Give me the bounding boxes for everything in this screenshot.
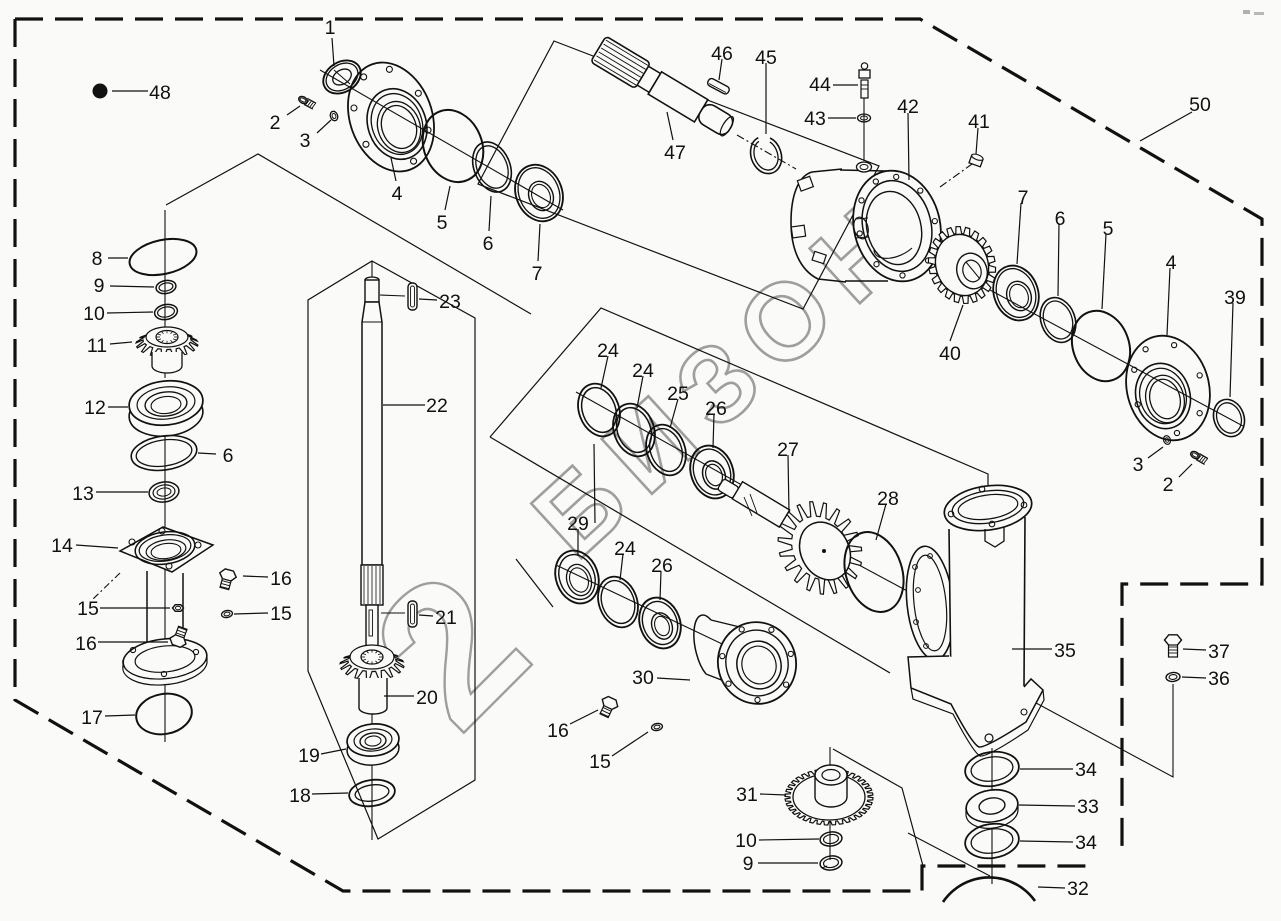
o-ring 5 [412, 101, 493, 191]
svg-text:20: 20 [416, 687, 438, 709]
axis 14 to screws dashdot [92, 573, 120, 600]
label 19 [298, 745, 346, 767]
o-ring 17 [133, 689, 195, 738]
label 6 [1055, 208, 1066, 296]
svg-text:19: 19 [298, 745, 320, 767]
label 32 [1038, 878, 1089, 900]
axis lower rings row [556, 565, 758, 661]
label 5 [1102, 218, 1114, 309]
label 28 [876, 488, 899, 540]
svg-text:8: 8 [92, 248, 103, 270]
svg-text:24: 24 [614, 538, 636, 560]
washer 3 [329, 110, 339, 121]
label 13 [72, 483, 148, 505]
screw 16 left [168, 625, 191, 649]
label 6 [483, 196, 494, 255]
ring 9 [155, 279, 177, 295]
label 48 [112, 82, 171, 104]
label 7 [532, 224, 543, 285]
label 15 [589, 732, 648, 773]
svg-text:3: 3 [1133, 454, 1144, 476]
panel bottom edge upper rings row [490, 437, 890, 673]
label 16 [547, 710, 598, 742]
o-ring 28 [835, 524, 914, 619]
washer 15 mid [221, 610, 233, 619]
svg-text:16: 16 [75, 633, 97, 655]
label 4 [391, 158, 403, 205]
bearing 12 [127, 377, 205, 439]
label 34 [1020, 832, 1097, 854]
snap ring 24c [591, 571, 644, 633]
label 39 [1224, 287, 1246, 397]
screw 16 mid [216, 568, 237, 591]
label 40 [939, 305, 963, 365]
label 26 [651, 555, 673, 600]
label 31 [736, 784, 786, 806]
flange 4 right [1115, 326, 1222, 450]
svg-text:32: 32 [1067, 878, 1089, 900]
hub 30 [694, 613, 805, 712]
key 46 [706, 77, 730, 95]
svg-text:9: 9 [94, 275, 105, 297]
label 21 [419, 607, 457, 629]
label 6 [198, 445, 233, 467]
svg-text:11: 11 [87, 335, 107, 357]
screw 2 right [1189, 450, 1208, 465]
axis gear 20 column [371, 712, 373, 840]
axis shaft 22 top [371, 261, 373, 280]
arc 32 [943, 877, 1035, 902]
bolt 37 [1165, 635, 1182, 657]
key 23 [408, 283, 417, 310]
flange plate 14 [120, 527, 213, 572]
svg-text:44: 44 [809, 74, 831, 96]
flange 4 right bolt holes [1132, 343, 1203, 436]
svg-text:39: 39 [1224, 287, 1246, 309]
svg-text:34: 34 [1075, 759, 1097, 781]
svg-text:28: 28 [877, 488, 899, 510]
svg-text:26: 26 [705, 398, 727, 420]
spur gear 31 [785, 765, 873, 825]
washer 15 bottom [651, 723, 663, 732]
label 12 [84, 397, 128, 419]
o-ring 8 [126, 233, 200, 280]
screw 2 [297, 95, 316, 109]
pinion gear 27 [717, 478, 877, 609]
label 41 [968, 111, 990, 154]
ring 25 [639, 419, 692, 481]
housing tube 35 [901, 480, 1044, 756]
washer 43 [858, 114, 871, 122]
o-ring 18 [347, 777, 396, 809]
label 22 [383, 395, 448, 417]
housing 42 [791, 161, 952, 290]
svg-text:47: 47 [664, 142, 686, 164]
label 16 [75, 633, 168, 655]
label 24 [614, 538, 636, 580]
svg-text:16: 16 [547, 720, 569, 742]
bearing 26b [632, 592, 687, 655]
bevel gear 20 [340, 645, 404, 714]
svg-text:22: 22 [426, 395, 448, 417]
panel upper rings row [490, 308, 988, 511]
bearing 26a [683, 439, 741, 504]
key 21 [408, 601, 417, 627]
bearing 7 [507, 157, 571, 228]
svg-text:6: 6 [1055, 208, 1066, 230]
svg-text:1: 1 [325, 17, 336, 39]
label 29 [567, 513, 589, 556]
tube of 14 [121, 571, 209, 685]
label 1 [325, 17, 336, 66]
label 11 [87, 335, 132, 357]
axis gear 31 column [829, 747, 831, 860]
label 3 [300, 120, 331, 152]
svg-text:17: 17 [81, 707, 103, 729]
svg-text:9: 9 [743, 853, 754, 875]
label 50 [1140, 94, 1211, 141]
svg-text:23: 23 [439, 291, 461, 313]
snap ring 9b [819, 855, 843, 872]
label 34 [1020, 759, 1097, 781]
bearing 1 [317, 54, 367, 101]
svg-text:26: 26 [651, 555, 673, 577]
axis top row [320, 70, 563, 210]
panel roof over gear 31 [833, 749, 990, 876]
svg-text:30: 30 [632, 667, 654, 689]
svg-text:16: 16 [270, 568, 292, 590]
svg-text:5: 5 [437, 212, 448, 234]
svg-text:4: 4 [1166, 252, 1177, 274]
svg-text:33: 33 [1077, 796, 1099, 818]
svg-text:10: 10 [735, 830, 757, 852]
ring 6 [466, 136, 519, 198]
bearing 13 [148, 480, 180, 504]
svg-text:4: 4 [392, 183, 403, 205]
svg-text:21: 21 [435, 607, 457, 629]
label 4 [1166, 252, 1177, 335]
snap ring 10 [153, 303, 178, 322]
o-ring 34a [963, 748, 1021, 789]
ring 39 [1208, 395, 1249, 441]
label 44 [809, 74, 858, 96]
bearing 19 [346, 722, 401, 767]
label 27 [777, 439, 799, 512]
axis upper rings row [576, 392, 790, 512]
grease fitting 44 [859, 63, 870, 98]
axis left column [164, 210, 166, 378]
svg-text:10: 10 [83, 303, 105, 325]
svg-text:36: 36 [1208, 668, 1230, 690]
panel parallelogram around shaft 47 [478, 41, 879, 309]
label 2 [1163, 464, 1192, 496]
label 10 [83, 303, 153, 325]
axis 47 to 45 dashdot [737, 135, 796, 169]
svg-text:5: 5 [1103, 218, 1114, 240]
label 15 [234, 603, 292, 625]
dot 48 [93, 84, 108, 99]
axis 42 to 41 dashdot [940, 164, 972, 187]
svg-text:3: 3 [300, 130, 311, 152]
axis 27 to 35 [822, 545, 935, 606]
gear 40 [919, 218, 1006, 313]
o-ring 5 right [1062, 303, 1139, 390]
svg-text:41: 41 [968, 111, 990, 133]
label 37 [1183, 641, 1230, 663]
svg-text:35: 35 [1054, 640, 1076, 662]
label 7 [1017, 187, 1028, 264]
label 47 [664, 112, 686, 164]
svg-text:15: 15 [270, 603, 292, 625]
label 43 [804, 108, 856, 130]
svg-text:18: 18 [289, 785, 311, 807]
splined shaft 47 [591, 36, 738, 141]
panel lower rings row edge [516, 559, 553, 607]
flange 4 [333, 50, 448, 183]
leader 36 37 to bracket [1025, 684, 1173, 777]
label 16 [243, 568, 292, 590]
key 21 line to shaft [381, 612, 405, 614]
axis 34-33-34-32 column [991, 748, 993, 884]
bevel gear 11 [136, 327, 198, 373]
label 24 [597, 340, 619, 388]
svg-text:2: 2 [270, 112, 281, 134]
svg-text:48: 48 [149, 82, 171, 104]
label 23 [419, 291, 461, 313]
label 20 [384, 687, 438, 709]
svg-text:12: 12 [84, 397, 106, 419]
tiny gray marks top right corner [1243, 10, 1264, 15]
axis left column lower [164, 428, 166, 742]
label 35 [1012, 640, 1076, 662]
svg-text:34: 34 [1075, 832, 1097, 854]
panel edge left of lower rings [594, 444, 595, 523]
nut 15 left [173, 605, 184, 612]
svg-text:31: 31 [736, 784, 758, 806]
svg-text:43: 43 [804, 108, 826, 130]
svg-text:14: 14 [51, 535, 73, 557]
seal 29 [548, 544, 606, 609]
snap ring 24a [571, 378, 627, 442]
axis right row [897, 240, 1243, 426]
label 36 [1182, 668, 1230, 690]
washer 3 right [1162, 435, 1171, 446]
label 30 [632, 667, 690, 689]
svg-text:50: 50 [1189, 94, 1211, 116]
label 10 [735, 830, 819, 852]
label 25 [667, 383, 689, 428]
key 23 line to shaft [380, 295, 405, 296]
plug 41 [969, 153, 984, 167]
svg-text:6: 6 [483, 233, 494, 255]
svg-text:24: 24 [597, 340, 619, 362]
label 33 [1019, 796, 1099, 818]
screw 16 bottom [596, 695, 620, 720]
label 26 [705, 398, 727, 448]
svg-text:15: 15 [589, 751, 611, 773]
panel box around shaft 22 [308, 261, 475, 839]
watermark text БИЗОН [510, 171, 941, 580]
label 46 [711, 43, 733, 80]
svg-text:6: 6 [223, 445, 234, 467]
svg-text:2: 2 [1163, 474, 1174, 496]
label 14 [51, 535, 118, 557]
washer 33 [964, 787, 1020, 829]
svg-text:40: 40 [939, 343, 961, 365]
label 17 [81, 707, 135, 729]
bearing 7 right [986, 259, 1046, 327]
label 5 [437, 186, 450, 234]
watermark logo symbol [332, 532, 568, 768]
ring 6 left [129, 432, 199, 475]
washer 10b [819, 831, 843, 848]
label 45 [755, 47, 777, 134]
axis 44 to 42 [863, 98, 865, 161]
svg-text:7: 7 [532, 263, 543, 285]
svg-text:25: 25 [667, 383, 689, 405]
label 2 [270, 106, 300, 134]
snap ring 24b [606, 398, 662, 462]
label 15 [77, 598, 170, 620]
panel roof top-left [166, 154, 531, 314]
label 42 [897, 96, 919, 180]
svg-text:15: 15 [77, 598, 99, 620]
label 3 [1133, 447, 1163, 476]
label 24 [632, 360, 654, 408]
label 9 [94, 275, 154, 297]
snap ring 45 [751, 138, 782, 174]
ring 6 right [1034, 293, 1082, 348]
label 18 [289, 785, 348, 807]
o-ring 34b [963, 820, 1021, 861]
label 9 [743, 853, 818, 875]
shaft 22 [361, 277, 383, 650]
svg-text:7: 7 [1018, 187, 1029, 209]
label 8 [92, 248, 128, 270]
svg-text:13: 13 [72, 483, 94, 505]
svg-text:37: 37 [1208, 641, 1230, 663]
lock washer 36 [1166, 672, 1181, 682]
